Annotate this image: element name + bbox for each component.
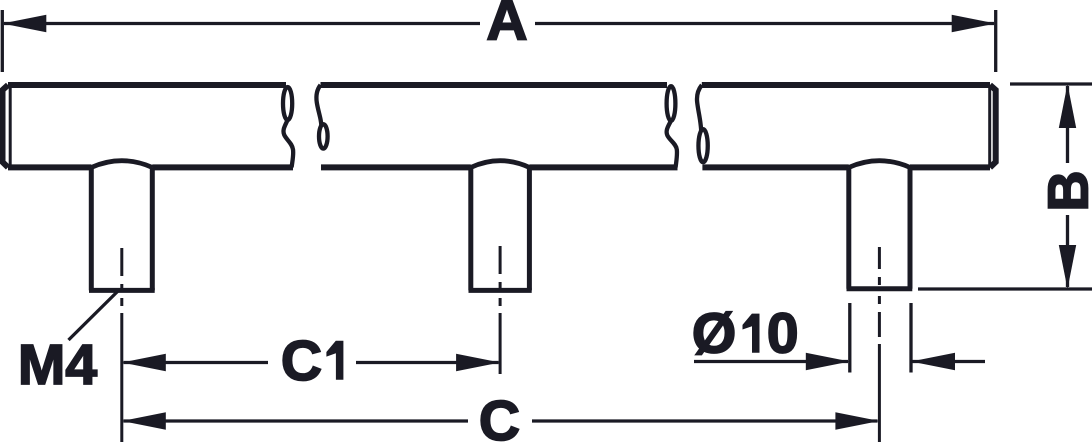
svg-text:B: B: [1037, 170, 1092, 211]
svg-text:M4: M4: [18, 333, 97, 397]
svg-text:A: A: [486, 0, 527, 53]
svg-text:C: C: [281, 329, 322, 393]
svg-text:C: C: [479, 389, 520, 442]
svg-text:Ø: Ø: [692, 302, 736, 366]
svg-text:0: 0: [767, 302, 799, 366]
